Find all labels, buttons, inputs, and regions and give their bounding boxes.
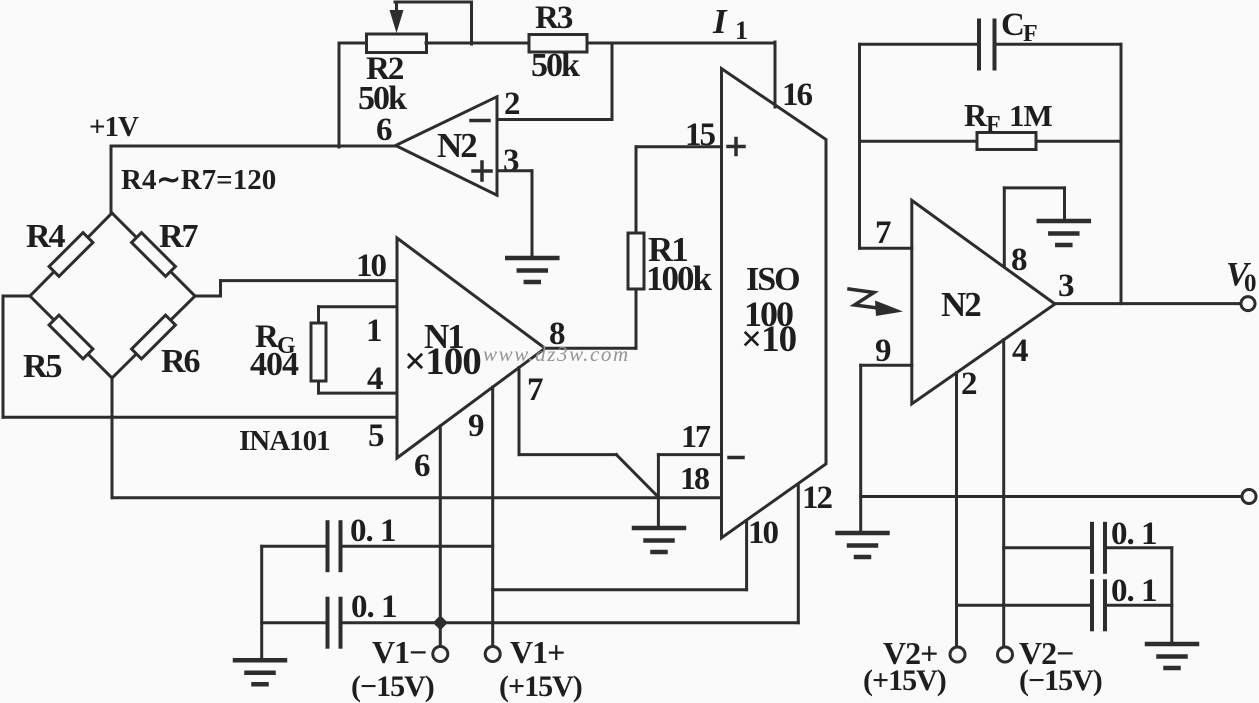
terminal right common (1242, 490, 1256, 504)
wire R3 to node I1 (587, 42, 775, 45)
svg-text:(+15V): (+15V) (499, 670, 582, 703)
label current I1 (712, 2, 748, 45)
label 0.1 (lower left) (351, 589, 397, 625)
svg-text:R4∼R7=120: R4∼R7=120 (121, 164, 276, 196)
svg-text:0. 1: 0. 1 (350, 513, 396, 549)
svg-text:7: 7 (527, 372, 543, 408)
wire pin7 stub (N2 right) (860, 247, 912, 250)
svg-text:6: 6 (414, 448, 430, 484)
ground (bottom right) (1147, 644, 1197, 668)
wire pin9 stub (861, 365, 912, 533)
label CF (1001, 7, 1038, 47)
svg-text:16: 16 (782, 77, 813, 113)
wire cap to V1-/pin12 rail (lower) (341, 621, 799, 624)
label 0.1 (lower right) (1111, 573, 1157, 609)
op-amp N1 triangle (397, 238, 545, 458)
wire feedback right vertical (1120, 44, 1123, 303)
svg-text:R: R (964, 97, 988, 133)
label (-15V) (1019, 664, 1102, 697)
wire upper cap to right rail (1105, 546, 1172, 549)
svg-text:100k: 100k (646, 259, 713, 298)
label V1+ (510, 634, 564, 670)
svg-text:0. 1: 0. 1 (1111, 573, 1157, 609)
terminal V2- (998, 647, 1013, 662)
svg-text:R5: R5 (23, 348, 62, 385)
pin 8 label (N1) (549, 316, 565, 352)
pin 7 label (N1) (527, 372, 543, 408)
pin 10 label (ISO) (748, 515, 779, 551)
op-amp N2 (right) triangle (912, 200, 1055, 404)
resistor R6 body (132, 315, 176, 359)
label V1- (372, 634, 426, 670)
pin 9 label (N1) (468, 408, 484, 444)
svg-text:(−15V): (−15V) (1019, 664, 1102, 697)
pin 1 label (N1) (366, 313, 382, 349)
pin 8 label (N2 right) (1011, 242, 1027, 278)
wire pin2 to R3 right node (497, 43, 612, 120)
wire cap to V1+ line (upper) (341, 545, 493, 548)
wire bridge right vertex to pin10 (195, 281, 397, 296)
wire +1V down to bridge top (110, 146, 113, 214)
ISO minus sign (729, 456, 743, 460)
wire ground stem (pin17/18 node) (657, 498, 660, 528)
svg-text:5: 5 (368, 418, 384, 454)
ground (below N2 left) (507, 258, 557, 282)
wire pin4 down to V2- (1002, 340, 1005, 647)
wire cap to left rail (lower) (262, 621, 328, 624)
label N2 (right) (941, 285, 980, 324)
wire bridge bottom vertex down (111, 378, 114, 498)
svg-text:7: 7 (875, 215, 891, 251)
svg-text:INA101: INA101 (239, 425, 330, 457)
isolation amp ISO100 body (722, 69, 827, 538)
svg-text:9: 9 (468, 408, 484, 444)
wire cap to left rail (upper) (262, 545, 328, 548)
junction dot V1- node (433, 615, 448, 630)
svg-text:15: 15 (685, 117, 716, 153)
svg-text:F: F (986, 112, 1001, 138)
label R1 value 100k (646, 259, 713, 298)
pin 2 label (N2 left) (504, 86, 520, 122)
svg-text:9: 9 (875, 333, 891, 369)
wire output to V0 (1055, 302, 1241, 305)
wire pin2 down to V2+ (955, 373, 958, 647)
watermark (483, 342, 630, 366)
ground (pin17/18 node) (634, 528, 684, 552)
op-amp N2 plus sign (473, 162, 491, 180)
wire pin9 down to V1+ (491, 387, 494, 646)
label R4~R7=120 (121, 164, 276, 196)
pin 5 label (N1) (368, 418, 384, 454)
svg-text:17: 17 (681, 418, 711, 454)
label R3 value 50k (531, 47, 580, 84)
label V2- (1019, 635, 1073, 671)
ground (N2 right pin9) (838, 533, 888, 557)
capacitor 0.1 (upper left) plates (328, 522, 341, 570)
svg-text:(−15V): (−15V) (351, 670, 434, 703)
label RG (255, 319, 296, 359)
svg-text:×10: ×10 (741, 319, 797, 360)
svg-text:ISO: ISO (746, 261, 799, 298)
svg-text:6: 6 (376, 112, 392, 148)
svg-text:12: 12 (802, 480, 833, 516)
label R2 value 50k (358, 80, 407, 117)
wire I1 to ISO pin16 (774, 42, 777, 107)
svg-text:10: 10 (748, 515, 779, 551)
wire feedback left vertical (858, 44, 861, 248)
svg-text:1M: 1M (1009, 98, 1053, 133)
pin 10 label (N1) (356, 248, 387, 284)
pin 16 label (ISO) (782, 77, 813, 113)
svg-text:2: 2 (504, 86, 520, 122)
svg-text:F: F (1023, 21, 1038, 47)
svg-text:1: 1 (366, 313, 382, 349)
ground (bottom left) (235, 660, 285, 684)
svg-text:10: 10 (356, 248, 387, 284)
wire pin3 to ground (497, 171, 532, 258)
wire ISO pin10 to V1+ rail (493, 521, 747, 590)
svg-text:R7: R7 (159, 218, 199, 255)
wire bridge left vertex to pin5 run (3, 296, 397, 417)
terminal V1- (433, 647, 448, 662)
label R4 (26, 218, 66, 255)
svg-text:0. 1: 0. 1 (351, 589, 397, 625)
wire R2 wiper to top (395, 2, 472, 44)
wire pin8 stub to ground (1004, 188, 1064, 265)
wire bridge bottom-right edge (112, 296, 195, 378)
label ISO 100 (744, 294, 793, 334)
terminal V1+ (485, 647, 500, 662)
label (+15V) (863, 664, 946, 697)
label V0 (1226, 256, 1257, 297)
svg-text:V1−: V1− (372, 634, 426, 670)
svg-text:(+15V): (+15V) (863, 664, 946, 697)
resistor R7 body (132, 233, 176, 277)
label N2 (left) (437, 126, 476, 165)
label R2 (366, 51, 404, 87)
wire R2 left branch (339, 43, 366, 147)
op-amp N2 (left) triangle (396, 97, 497, 196)
pin 4 label (N2 right) (1012, 333, 1028, 369)
wire bridge bottom-left edge (30, 296, 112, 378)
wire RF rail (860, 140, 1122, 143)
svg-text:50k: 50k (531, 47, 580, 84)
capacitor 0.1 (upper right) plates (1092, 524, 1105, 572)
wire pin1 stub (319, 305, 398, 308)
pin 3 label (N2 right) (1058, 268, 1074, 304)
potentiometer R2 wiper arrow (390, 2, 404, 33)
svg-text:R4: R4 (26, 218, 66, 255)
svg-text:3: 3 (503, 143, 519, 179)
svg-text:1: 1 (735, 16, 748, 45)
wire R2 to R3 (426, 42, 529, 45)
pin 6 label (N2 left) (376, 112, 392, 148)
wire +1V to N2 apex (111, 145, 396, 148)
svg-text:+1V: +1V (89, 111, 139, 143)
label RF 1M (964, 97, 1053, 138)
label R6 (161, 343, 200, 380)
svg-text:R3: R3 (535, 0, 573, 36)
label 0.1 (upper left) (350, 513, 396, 549)
wire pin4 to upper cap (1004, 546, 1092, 549)
svg-text:V1+: V1+ (510, 634, 564, 670)
pin 2 label (N2 right) (961, 366, 977, 402)
capacitor 0.1 (lower right) plates (1092, 581, 1105, 629)
wire right cap rail down (1170, 548, 1173, 644)
wire RG top (317, 307, 320, 323)
capacitor 0.1 (lower left) plates (328, 599, 341, 647)
wire ground bus (pin18 run) (112, 496, 722, 499)
label +1V (89, 111, 139, 143)
resistor R3 body (529, 35, 587, 53)
op-amp N2 minus sign (471, 119, 489, 123)
wire V1 cap left rail (260, 546, 263, 660)
terminal V0 (1241, 297, 1255, 311)
label R5 (23, 348, 62, 385)
pin 3 label (N2 left) (503, 143, 519, 179)
pin 6 label (N1) (414, 448, 430, 484)
wire CF top loop (860, 43, 1122, 46)
pin 17 label (ISO) (681, 418, 711, 454)
wire ISO pin12 to V1- rail (797, 485, 800, 623)
label ISO (746, 261, 799, 298)
ISO plus sign (728, 139, 744, 155)
wire pin6 down to V1- (439, 426, 442, 646)
svg-text:4: 4 (1012, 333, 1028, 369)
svg-text:8: 8 (1011, 242, 1027, 278)
label (+15V) (499, 670, 582, 703)
capacitor CF plates (979, 21, 995, 69)
wire pin2 to lower cap (957, 604, 1093, 607)
label N1 (424, 317, 463, 356)
pin 4 label (N1) (367, 361, 383, 397)
label R7 (159, 218, 199, 255)
ground (N2 right pin8) (1039, 221, 1089, 245)
label V2+ (883, 635, 937, 671)
wire pin7 route (519, 368, 659, 498)
svg-text:N2: N2 (941, 285, 980, 324)
wire right ground bus (861, 495, 1242, 498)
svg-text:3: 3 (1058, 268, 1074, 304)
wire N1 pin8 to R1 (545, 289, 636, 348)
optical input arrow (849, 289, 903, 316)
wire pin4 stub (319, 392, 398, 395)
resistor R1 body (628, 233, 644, 289)
wire pin17 stub (658, 455, 721, 498)
label R3 (535, 0, 573, 36)
svg-text:N2: N2 (437, 126, 476, 165)
label N1 gain x100 (404, 340, 481, 383)
resistor R4 body (49, 233, 93, 277)
svg-text:R6: R6 (161, 343, 200, 380)
pin 9 label (N2 right) (875, 333, 891, 369)
svg-text:×100: ×100 (404, 340, 481, 383)
label 0.1 (upper right) (1111, 516, 1157, 552)
pin 12 label (ISO) (802, 480, 833, 516)
svg-text:0. 1: 0. 1 (1111, 516, 1157, 552)
wire bridge top-left edge (30, 213, 112, 296)
pin 7 label (N2 right) (875, 215, 891, 251)
pin 18 label (ISO) (680, 460, 709, 496)
label R1 (648, 230, 687, 269)
resistor RG body (311, 323, 326, 381)
wire bridge top-right edge (112, 213, 195, 296)
wire lower cap to right rail (1105, 604, 1172, 607)
potentiometer R2 body (367, 34, 427, 53)
svg-text:2: 2 (961, 366, 977, 402)
resistor R5 body (49, 315, 93, 359)
svg-text:www.dz3w.com: www.dz3w.com (483, 342, 630, 366)
terminal V2+ (950, 647, 965, 662)
wire RG bottom (317, 381, 320, 393)
pin 15 label (ISO) (685, 117, 716, 153)
svg-text:0: 0 (1244, 270, 1257, 297)
label INA101 (239, 425, 330, 457)
label ISO x10 (741, 319, 797, 360)
svg-text:I: I (712, 2, 728, 41)
label (-15V) (351, 670, 434, 703)
svg-text:C: C (1001, 7, 1025, 43)
label RG value 404 (250, 346, 299, 383)
resistor RF body (977, 133, 1036, 150)
wire R1 to pin15 corner (636, 147, 722, 233)
svg-text:18: 18 (680, 460, 709, 496)
svg-text:404: 404 (250, 346, 299, 383)
